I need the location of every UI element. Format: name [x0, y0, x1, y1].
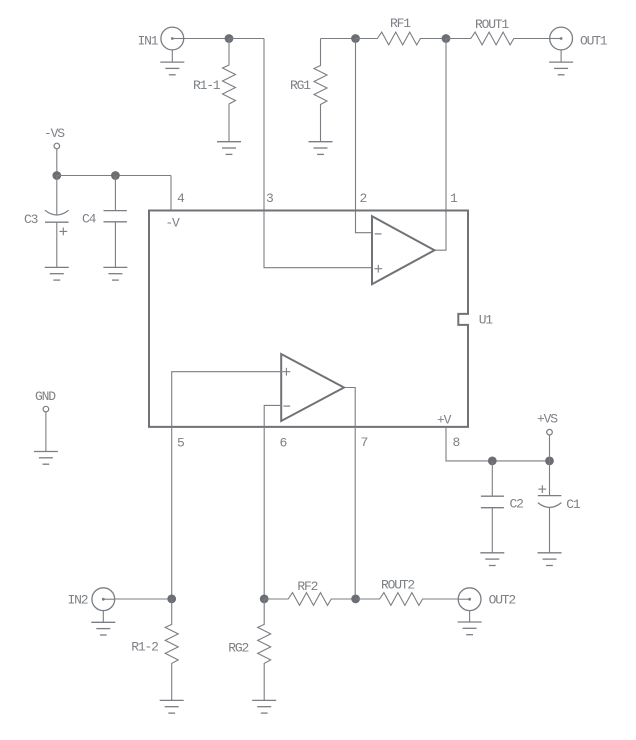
resistor RF1	[356, 32, 447, 45]
wire OUT2 stub	[469, 611, 471, 622]
wire down to pin 4	[170, 176, 172, 211]
connector IN1	[161, 27, 184, 50]
ground under IN2	[91, 622, 115, 635]
svg-text:U1: U1	[479, 312, 494, 327]
svg-text:1: 1	[450, 191, 458, 206]
ground under C1	[538, 553, 562, 566]
junction pin7 node	[351, 595, 360, 604]
junction C4 node	[111, 171, 120, 180]
resistor RG1	[314, 39, 327, 142]
svg-text:6: 6	[280, 436, 287, 451]
wire pin 3 to noninverting input	[264, 211, 371, 268]
op-amp U1 body	[149, 211, 468, 427]
wire GND stub	[45, 412, 47, 452]
junction R1-1 top node	[225, 34, 234, 43]
wire IN2 stub	[102, 611, 104, 623]
svg-text:IN1: IN1	[138, 33, 159, 48]
svg-text:2: 2	[360, 191, 367, 206]
connector OUT2	[458, 588, 481, 611]
ground under IN1	[160, 62, 184, 75]
wire pin 8 to +V rail	[446, 427, 550, 461]
wire OUT1 stub	[560, 50, 562, 62]
op-amp U1A triangle	[372, 216, 435, 284]
svg-text:RF2: RF2	[297, 579, 317, 594]
svg-text:R1-1: R1-1	[193, 78, 221, 93]
wire pin 6 to inverting input	[264, 405, 280, 599]
wire pin 2 drop	[356, 39, 372, 233]
wire -VS rail	[57, 175, 171, 177]
ground under C3	[45, 267, 69, 280]
resistor RF2	[264, 593, 355, 606]
connector OUT1	[550, 27, 573, 50]
ground under RG2	[252, 700, 276, 713]
wire IN2 to R1-2 node	[115, 598, 172, 600]
wire U1B output to pin 7	[345, 388, 355, 599]
svg-text:4: 4	[177, 191, 185, 206]
ground under R1-1	[217, 142, 241, 155]
connector IN2	[92, 588, 115, 611]
svg-text:+V: +V	[437, 413, 452, 428]
wire IN1 to R1-1 node	[184, 38, 229, 40]
svg-text:7: 7	[361, 435, 368, 450]
ground under OUT1	[549, 62, 573, 75]
svg-text:5: 5	[177, 436, 184, 451]
op-amp U1B triangle	[281, 354, 344, 421]
svg-text:C2: C2	[510, 497, 524, 512]
svg-text:C1: C1	[566, 497, 581, 512]
capacitor C1	[538, 461, 562, 553]
svg-text:RG1: RG1	[290, 78, 311, 93]
resistor R1-1	[223, 39, 236, 142]
junction C3 node	[52, 171, 61, 180]
junction C1 node	[545, 457, 554, 466]
wire pin 1 drop	[435, 39, 446, 251]
wire -VS drop	[56, 149, 58, 176]
svg-text:RF1: RF1	[390, 16, 411, 31]
svg-text:-VS: -VS	[44, 126, 65, 141]
resistor ROUT2	[356, 593, 459, 606]
junction pin1 node	[442, 34, 451, 43]
junction C2 node	[488, 457, 497, 466]
svg-text:RG2: RG2	[228, 640, 248, 655]
op-amp U1B noninverting mark	[283, 368, 291, 376]
capacitor C3	[45, 176, 69, 268]
wire +VS drop	[549, 435, 551, 461]
ground GND	[34, 452, 58, 465]
junction RG2 node	[260, 595, 269, 604]
wire IN1 stub	[171, 50, 173, 62]
terminal -VS	[54, 143, 60, 149]
resistor R1-2	[165, 599, 178, 700]
svg-text:OUT2: OUT2	[489, 593, 516, 608]
capacitor C4	[104, 176, 127, 268]
svg-text:+VS: +VS	[537, 412, 558, 427]
svg-text:C3: C3	[24, 212, 38, 227]
wire RG1 to pin2 node	[321, 38, 356, 40]
resistor RG2	[258, 599, 271, 700]
junction R1-2 node	[167, 595, 176, 604]
ground under OUT2	[458, 622, 482, 635]
wire node to pin3 corner	[229, 38, 264, 40]
svg-text:3: 3	[266, 191, 273, 206]
resistor ROUT1	[446, 32, 550, 45]
svg-text:R1-2: R1-2	[131, 640, 158, 655]
ground under R1-2	[160, 700, 184, 713]
svg-text:OUT1: OUT1	[580, 33, 608, 48]
terminal GND	[43, 406, 49, 412]
svg-text:ROUT1: ROUT1	[475, 17, 509, 32]
svg-text:GND: GND	[35, 389, 56, 404]
svg-text:-V: -V	[165, 216, 180, 231]
op-amp U1A inverting mark	[375, 233, 382, 235]
ground under C2	[480, 553, 504, 566]
wire down to pin 3	[263, 39, 265, 211]
op-amp U1A noninverting mark	[374, 265, 382, 273]
ground under RG1	[309, 142, 333, 155]
svg-text:8: 8	[453, 435, 460, 450]
svg-text:ROUT2: ROUT2	[381, 577, 414, 592]
terminal +VS	[547, 429, 553, 435]
svg-text:C4: C4	[82, 212, 97, 227]
junction pin2 node	[351, 34, 360, 43]
svg-text:IN2: IN2	[68, 593, 88, 608]
op-amp U1B inverting mark	[283, 405, 290, 407]
capacitor C2	[481, 461, 504, 553]
ground under C4	[103, 267, 127, 280]
wire pin 5 to noninverting input	[172, 372, 281, 599]
